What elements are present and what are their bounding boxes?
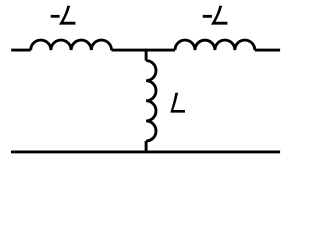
- label -L (right): minus: [203, 15, 212, 18]
- label L (shunt): [170, 93, 185, 113]
- label -L (left): minus: [51, 15, 60, 18]
- label -L (right): L: [211, 6, 228, 25]
- inductor L2 (-L right series): [175, 40, 255, 50]
- wire bottom rail: [11, 150, 280, 153]
- inductor L3 (L shunt): [146, 61, 156, 141]
- wire top-right: [255, 49, 280, 52]
- wire junction stub: [145, 49, 148, 61]
- wire top-middle: [112, 49, 176, 52]
- label -L (left): L: [59, 6, 76, 25]
- inductor L1 (-L left series): [31, 40, 112, 50]
- wire shunt bottom stub: [145, 141, 148, 152]
- wire top-left: [11, 49, 31, 52]
